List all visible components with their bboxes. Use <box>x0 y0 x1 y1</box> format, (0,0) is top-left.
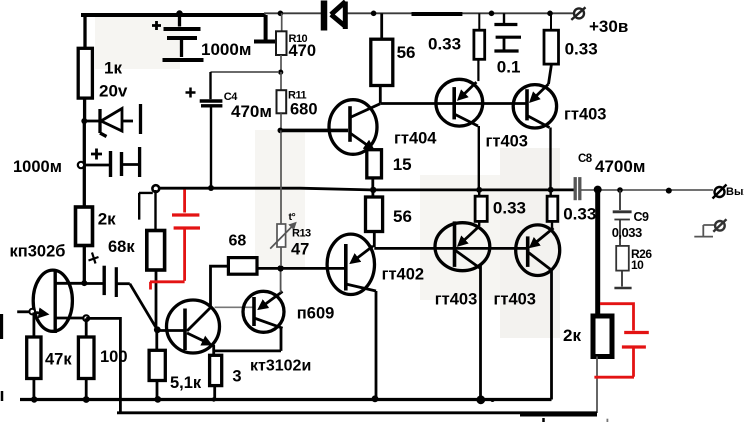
resistor R11 680 <box>277 72 318 130</box>
wire gt403BM emitter down <box>479 265 482 400</box>
left edge artifact bottom <box>1 391 4 401</box>
svg-text:2к: 2к <box>98 210 116 229</box>
wire top rail thick left segment <box>81 13 266 17</box>
gray tick artifact <box>606 419 608 422</box>
capacitor 1000m top electrolytic <box>152 14 251 61</box>
resistor 47k <box>27 312 73 399</box>
svg-text:3: 3 <box>232 368 241 386</box>
svg-text:470м: 470м <box>231 102 272 121</box>
capacitor red right parallel 2k <box>594 304 648 378</box>
wire kt3102 collector up to 68 <box>211 266 229 306</box>
resistor R10 470 <box>276 13 316 72</box>
resistor 56 upper <box>371 13 416 103</box>
resistor 68 <box>228 233 278 275</box>
node 68-R13 junction <box>277 265 283 271</box>
diode D1 power rail <box>324 1 346 31</box>
bottom tick artifact <box>542 418 545 422</box>
node thick line top junction <box>594 186 602 194</box>
transistor VT5 gt403 upper left <box>436 79 528 150</box>
resistor 2k output <box>563 316 612 413</box>
transistor VT9 gt403 bottom right <box>494 221 560 308</box>
svg-text:1к: 1к <box>104 59 122 78</box>
capacitor 0.1 <box>494 13 521 76</box>
capacitor 1000m left electrolytic <box>13 147 140 177</box>
svg-text:68: 68 <box>229 233 247 250</box>
svg-text:470: 470 <box>289 42 317 60</box>
capacitor C9 0.033 <box>612 190 649 246</box>
wire R11 to gt404 base thick <box>282 129 349 133</box>
node rail-0.33 junction <box>547 11 553 17</box>
capacitor gate coupling <box>84 266 130 297</box>
node rail-1000m junction <box>176 10 182 16</box>
wire rail2 right thicker segment <box>520 413 597 416</box>
terminal input open circle node <box>152 185 159 192</box>
resistor R26 10 <box>614 246 652 288</box>
node rail-0.1cap junction <box>489 11 495 17</box>
node rail-56 junction <box>371 11 377 17</box>
scan tint patches (background) <box>500 148 560 338</box>
wire diagonal cap to kt3102 base <box>130 284 158 330</box>
wire Z-connector from rail to R10 left side <box>254 15 277 42</box>
node R11 bottom junction <box>278 128 284 134</box>
wire gray horizontal to C4 top <box>211 71 280 73</box>
wire gt403UL emitter down <box>478 126 480 189</box>
resistor R13 47 thermistor <box>270 130 311 266</box>
svg-text:п609: п609 <box>297 305 335 323</box>
svg-text:C9: C9 <box>634 210 650 224</box>
svg-text:C8: C8 <box>578 153 593 165</box>
terminal output Vyh <box>713 185 744 199</box>
diode VD zener <box>84 104 140 137</box>
svg-text:Вых: Вых <box>726 186 744 198</box>
svg-text:4700м: 4700м <box>595 157 645 176</box>
resistor 0.33 upper left <box>428 13 485 81</box>
node jfet source junction open circle <box>83 315 89 321</box>
svg-text:20v: 20v <box>99 82 128 101</box>
node mid rail C4 junction <box>208 185 214 191</box>
terminal +30v <box>571 7 628 36</box>
svg-text:гт403: гт403 <box>564 106 606 124</box>
svg-text:5,1к: 5,1к <box>170 374 202 392</box>
terminal probe symbol <box>694 219 726 236</box>
wire C8 to output terminal <box>581 189 713 191</box>
resistor 68k <box>108 231 165 330</box>
capacitor red left <box>150 190 200 290</box>
node rail 5.1k <box>154 396 161 403</box>
node 1k-zener junction <box>81 118 87 124</box>
left edge artifact bar <box>0 314 3 339</box>
svg-text:100: 100 <box>100 348 128 366</box>
svg-text:гт404: гт404 <box>394 130 437 148</box>
wire thick line to 2k <box>595 190 600 316</box>
wire gt404 collector node to gt403 bases <box>380 102 527 105</box>
wire gt402 emitter to gt403 bases <box>374 247 527 250</box>
svg-text:+30в: +30в <box>589 17 628 36</box>
transistor VT1 kp302b JFET <box>10 242 87 333</box>
wire p609 collector down and left to 3 <box>214 328 281 351</box>
node output junction <box>666 188 672 194</box>
svg-text:0.33: 0.33 <box>563 205 596 224</box>
wire p609 emitter up to node <box>280 268 282 292</box>
wire top rail thin segment to diode <box>264 12 321 14</box>
node rail-R10 junction <box>278 11 284 17</box>
wire top rail thin segment diode to +30v terminal <box>347 12 574 14</box>
node C9 junction <box>617 187 623 193</box>
node rail 47k <box>31 396 37 402</box>
wire 68k top lead from input node <box>154 190 156 230</box>
svg-text:0.33: 0.33 <box>428 35 461 54</box>
node rail gt403BM big <box>476 395 485 404</box>
resistor 2k left <box>76 207 117 283</box>
svg-text:R13: R13 <box>292 228 311 240</box>
svg-text:0.1: 0.1 <box>497 58 521 77</box>
svg-text:68к: 68к <box>108 238 135 256</box>
scribble x mark below 2k <box>89 253 99 264</box>
resistor 100 <box>78 318 127 399</box>
node mid rail 0.33R junction <box>548 187 554 193</box>
svg-text:0,033: 0,033 <box>612 225 642 240</box>
svg-text:гт402: гт402 <box>382 266 424 284</box>
svg-text:1000м: 1000м <box>13 158 62 176</box>
svg-text:680: 680 <box>290 101 318 119</box>
node rail gt402 <box>372 395 379 402</box>
wire mid output rail <box>158 188 574 190</box>
wire gt403UR emitter down <box>549 128 551 190</box>
transistor VT8 gt403 bottom middle <box>435 221 490 308</box>
node R10-R11 junction <box>278 70 283 75</box>
node kt3102 base junction <box>154 326 161 333</box>
capacitor C8 4700m <box>575 153 645 200</box>
node mid rail 15/56 junction <box>370 187 376 193</box>
svg-text:гт403: гт403 <box>494 291 536 309</box>
wire top rail thick segment <box>412 12 463 16</box>
wire jfet source feedback to bottom rail2 <box>86 318 120 412</box>
svg-text:0.33: 0.33 <box>493 199 526 218</box>
svg-text:47: 47 <box>291 241 309 259</box>
svg-text:t°: t° <box>289 211 296 223</box>
svg-text:кп302б: кп302б <box>10 242 66 260</box>
wire stub below input circle <box>139 193 153 220</box>
svg-text:56: 56 <box>393 207 412 226</box>
resistor 3 <box>210 355 242 399</box>
wire gt402 collector down to rail <box>375 291 378 399</box>
node rail 100 <box>83 396 90 403</box>
node rail 3-resistor <box>212 397 216 401</box>
svg-text:кт3102и: кт3102и <box>250 358 311 375</box>
svg-text:47к: 47к <box>45 351 72 369</box>
resistor 56 lower <box>366 190 412 247</box>
node rail small second dot <box>491 398 495 402</box>
transistor VT3 p609 <box>215 291 335 332</box>
transistor VT6 gt403 upper right <box>513 64 606 128</box>
svg-text:0.33: 0.33 <box>565 40 598 59</box>
node mid rail 0.33L junction <box>476 187 482 193</box>
svg-text:гт403: гт403 <box>486 133 528 151</box>
resistor 0.33 lower right <box>547 190 596 224</box>
wire bottom feedback rail2 <box>117 411 597 414</box>
resistor 0.33 lower left <box>475 190 526 222</box>
transistor VT2 kt3102i <box>157 300 311 375</box>
capacitor C4 470m <box>186 72 272 189</box>
svg-text:10: 10 <box>631 258 644 272</box>
transistor VT4 gt404 driver <box>329 100 437 155</box>
transistor VT7 gt402 <box>284 234 425 294</box>
wire bottom ground rail <box>20 398 552 401</box>
svg-text:15: 15 <box>393 155 412 174</box>
resistor 5.1k <box>149 332 202 400</box>
svg-text:1000м: 1000м <box>201 40 251 59</box>
wire left rail down to 2k <box>83 121 86 207</box>
svg-text:гт403: гт403 <box>435 291 477 309</box>
resistor 1k 20v <box>78 15 128 121</box>
wire gt403BR emitter down <box>550 270 553 400</box>
resistor 15 <box>367 150 412 189</box>
resistor 0.33 upper right <box>544 13 598 64</box>
svg-text:2к: 2к <box>563 326 581 345</box>
svg-text:56: 56 <box>397 43 416 62</box>
node jfet drain junction <box>81 280 87 286</box>
